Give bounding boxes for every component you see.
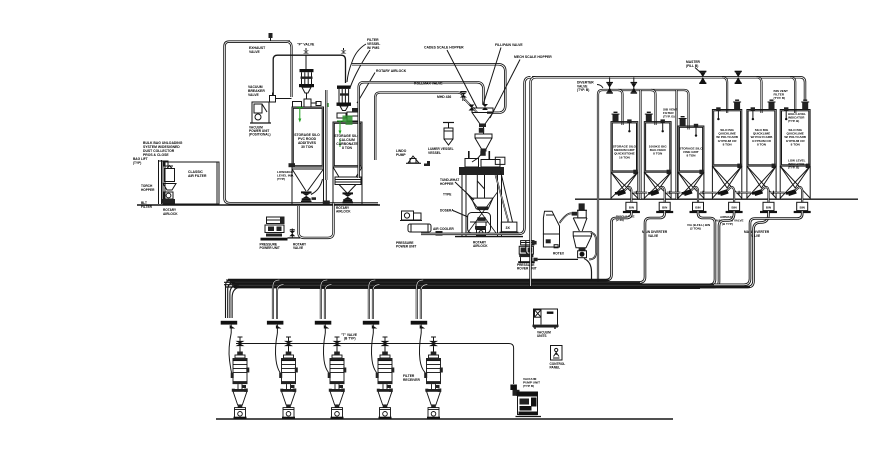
drop fitting 4 (363, 321, 380, 333)
coupling on pressure line (436, 231, 443, 236)
svg-text:BIN: BIN (766, 206, 771, 210)
pipe bin downcomer 5 (400, 211, 769, 287)
label rotary airlock silo2 (376, 69, 407, 73)
green patch feeder (327, 103, 353, 125)
label rotary airlock left (163, 208, 178, 216)
valve between scale hoppers (479, 128, 484, 133)
svg-text:AIRLOCK: AIRLOCK (163, 212, 178, 216)
label cades scale hopper (424, 46, 464, 50)
bin box 5 (760, 202, 777, 213)
svg-text:(TYP. B): (TYP. B) (788, 119, 799, 123)
svg-text:(TYP): (TYP) (277, 177, 285, 181)
svg-text:VALVE: VALVE (248, 93, 260, 97)
svg-text:AIR FILTER: AIR FILTER (188, 174, 207, 178)
svg-text:VESSEL: VESSEL (428, 151, 441, 155)
label pressure power unit blower (260, 243, 280, 251)
svg-text:8 TON: 8 TON (653, 152, 663, 156)
label high level indicator (788, 112, 806, 123)
label pressure rover unit (517, 263, 537, 271)
svg-text:"P" VALVE: "P" VALVE (297, 43, 315, 47)
svg-text:8 TON: 8 TON (757, 142, 767, 146)
valve T on filter line 2 (341, 48, 347, 54)
vacuum units box (533, 309, 559, 329)
discharge valve bin1 (615, 189, 626, 196)
pipe bin downcomer 4 (234, 211, 734, 287)
bin B6 (780, 100, 810, 198)
svg-text:30 TON: 30 TON (301, 145, 313, 149)
valve master fill 1 (699, 71, 706, 84)
label vacuum pump unit (523, 377, 540, 388)
leader filter vessel wavy (347, 44, 370, 88)
label discharge note (616, 215, 635, 223)
green arrow silo1 (297, 108, 304, 123)
doser unit (468, 213, 491, 233)
label dosera (440, 209, 454, 213)
svg-text:BIN: BIN (695, 206, 700, 210)
discharge valve bin4 (718, 189, 729, 196)
valve riser 1 (606, 77, 613, 93)
bin box 1 (623, 202, 640, 213)
svg-text:MECH SCALE HOPPER: MECH SCALE HOPPER (514, 55, 552, 59)
svg-text:(B TYP): (B TYP) (722, 222, 733, 226)
bin B5 (747, 100, 776, 198)
ground line mixer (455, 236, 523, 238)
pipe right group fill drops (722, 77, 795, 113)
pipe silo2 discharge branch (299, 203, 334, 238)
rotary airlock silo2 (343, 192, 354, 203)
pipe pressure line to riser (421, 77, 531, 234)
scale hopper SH1 (472, 108, 493, 127)
control panel box (551, 346, 563, 361)
label bin B1 text (613, 145, 637, 160)
lindo pump symbol (406, 156, 421, 163)
svg-text:8 TON: 8 TON (342, 146, 352, 150)
leader rotary airlock (357, 73, 375, 104)
svg-text:ROTARY AIRLOCK: ROTARY AIRLOCK (376, 69, 407, 73)
bin box 6 (794, 202, 811, 213)
svg-text:CADES SCALE HOPPER: CADES SCALE HOPPER (424, 46, 464, 50)
bin box 2 (656, 202, 673, 213)
svg-text:RECEIVER: RECEIVER (403, 378, 420, 382)
filter F2 on silo2 (337, 86, 352, 111)
hose drop5 to receiver5 (419, 333, 425, 373)
drop fitting 5 (411, 321, 428, 333)
label blt filter (141, 201, 153, 209)
valve on hopper1 top (482, 104, 488, 110)
lumer vessel (443, 122, 454, 145)
bin box 3 (690, 202, 707, 213)
pipe bowl S-curve (589, 233, 596, 260)
valve T on filter line 1 (303, 48, 309, 69)
label rotary valve (293, 243, 307, 251)
discharge elbow bin5 (762, 187, 769, 202)
label silo1 text (294, 133, 320, 149)
label bag lift (133, 157, 148, 165)
svg-text:BIN: BIN (800, 206, 805, 210)
pipe chute to cyclone arc (560, 212, 578, 223)
svg-text:HOPPER: HOPPER (141, 188, 155, 192)
svg-text:(2 TON): (2 TON) (690, 227, 701, 231)
label fill-pain valve (495, 43, 523, 47)
leader dosera (453, 211, 468, 218)
bin box 4 (726, 202, 743, 213)
bulk bag unloader mast (158, 160, 173, 204)
svg-text:FILTER: FILTER (141, 205, 153, 209)
discharge valve bin2 (648, 189, 659, 196)
label master fill (686, 60, 701, 68)
valve master fill 2 (735, 71, 742, 84)
drop fitting 1 (221, 321, 238, 333)
pipe discharge connector 4 (736, 191, 751, 195)
leader diverter valve (597, 85, 603, 89)
valve riser 2 (631, 77, 638, 93)
label filter receiver (403, 374, 420, 382)
filter F1 on silo1 (299, 69, 314, 99)
ground line right section (575, 198, 858, 200)
svg-text:POWER UNIT: POWER UNIT (260, 246, 280, 250)
pipe mid loop y82 (359, 82, 484, 178)
pipe: exhaust riser stub (269, 33, 273, 41)
manifold drop 2 (273, 280, 284, 319)
sifter chute (543, 211, 559, 248)
leader fill-pain valve (483, 48, 501, 106)
pipe: silo1 exhaust riser (286, 42, 292, 97)
discharge elbow bin4 (727, 187, 734, 202)
label filter vessel (367, 38, 380, 50)
pipe rover line (538, 258, 578, 260)
dust collector housing (163, 162, 219, 204)
label tund-what hopper (440, 178, 459, 186)
bin B2 (644, 112, 671, 198)
svg-text:VALVE: VALVE (648, 234, 658, 238)
leader master fill (695, 68, 701, 74)
hose drop4 to receiver4 (371, 333, 376, 373)
valve rotary on line (289, 229, 295, 238)
svg-text:VALVE: VALVE (249, 50, 261, 54)
pipe between silos vertical (325, 90, 327, 180)
pipe main conveying line y77 (532, 77, 805, 100)
rotary airlock silo1 (301, 179, 323, 203)
label bin B6 text (784, 128, 806, 146)
vacuum pump unit (510, 385, 541, 417)
pipe cyclone drop to manifold (584, 259, 592, 282)
svg-text:3X: 3X (506, 226, 511, 230)
discharge elbow bin3 (691, 187, 698, 202)
manifold band (224, 280, 750, 289)
label bulk bag unloading note (143, 141, 183, 157)
svg-text:MHD 436: MHD 436 (437, 95, 451, 99)
label bin B5 text (751, 128, 773, 146)
label bin B4 text (716, 128, 738, 146)
receiver R5 (424, 337, 443, 420)
svg-text:DOSERA: DOSERA (440, 209, 454, 213)
svg-text:POWER UNIT: POWER UNIT (396, 245, 416, 249)
label main diverter valve left (642, 230, 668, 238)
steps symbol (421, 161, 430, 166)
rotary feeder on silo2 top (337, 108, 359, 121)
hose drop2 to receiver2 (275, 333, 280, 373)
label vacuum breaker valve (248, 85, 265, 97)
svg-text:PANEL: PANEL (550, 366, 561, 370)
chute diagonals to 3X (496, 171, 513, 222)
manifold drop 1 (226, 280, 243, 318)
bin B3 (678, 117, 704, 199)
svg-text:HOPPER: HOPPER (440, 182, 454, 186)
air cooler (408, 224, 431, 232)
label torch hopper (141, 184, 155, 192)
pipe bin downcomer 2 (230, 211, 665, 282)
label mhd 436 (437, 95, 451, 99)
label bin B2 text (649, 145, 667, 156)
pipe mid riser to manifold (526, 241, 530, 255)
svg-text:(POSITIONAL): (POSITIONAL) (249, 133, 271, 137)
scale hopper SH2 (472, 127, 492, 162)
pressure power unit left (400, 211, 422, 221)
svg-text:AIR COOLER: AIR COOLER (433, 227, 454, 231)
cyclone receiver (573, 203, 591, 257)
svg-text:BIN: BIN (629, 206, 634, 210)
svg-text:(B TYP): (B TYP) (344, 337, 356, 341)
manifold drop 5 (417, 280, 428, 319)
pipe header downpipe x600 (597, 96, 599, 282)
ground line bottom (216, 418, 673, 420)
vacuum power unit skid (250, 102, 271, 123)
svg-text:TYPE: TYPE (443, 193, 451, 197)
hose drop3 to receiver3 (323, 333, 328, 373)
svg-text:(FILL B): (FILL B) (686, 64, 698, 68)
discharge valve bin6 (786, 189, 797, 196)
rotary airlock left (162, 192, 175, 204)
svg-text:8 TON: 8 TON (686, 154, 696, 158)
pipe to blower (288, 237, 301, 239)
svg-text:(TYP. B): (TYP. B) (774, 96, 786, 100)
storage silo S1 (289, 99, 324, 205)
label rollmax valve (414, 82, 443, 86)
leader mech scale hopper (490, 60, 520, 119)
pipe discharge connector 3 (700, 191, 717, 195)
svg-text:VALVE: VALVE (750, 234, 760, 238)
label air cooler (433, 227, 454, 231)
label rotary airlock silo2 bottom (336, 206, 351, 214)
svg-text:AIRLOCK: AIRLOCK (336, 210, 351, 214)
valve on hopper1 inlet slant (469, 105, 475, 111)
discharge elbow bin1 (625, 187, 632, 202)
mixer platform (459, 151, 505, 237)
manifold drop 3 (321, 280, 332, 319)
svg-text:8 TON: 8 TON (723, 142, 733, 146)
svg-text:8 TON: 8 TON (791, 142, 801, 146)
label bin vent filter right (774, 89, 789, 100)
label vacuum units (537, 331, 551, 339)
discharge valve bin5 (752, 189, 763, 196)
valve below hopper2 (480, 151, 485, 156)
pressure rover unit (518, 241, 537, 264)
pipe outer loop y64 (352, 64, 505, 113)
storage silo S2 (333, 122, 362, 205)
discharge elbow bin6 (795, 187, 802, 202)
vacuum breaker valve symbol (270, 93, 292, 103)
pipe interbin vertical 1 (639, 90, 641, 199)
drop fitting 3 (315, 321, 332, 333)
label vacuum power unit (249, 126, 271, 137)
pipe slant valve to hopper2 (464, 98, 478, 113)
drop fitting 2 (267, 321, 284, 333)
svg-text:VALVE: VALVE (293, 246, 303, 250)
label lumer vessel (428, 147, 454, 155)
svg-text:(TYP. B): (TYP. B) (788, 166, 799, 170)
svg-text:PUMP: PUMP (396, 153, 406, 157)
receiver R3 (328, 337, 347, 420)
svg-text:ROVER UNIT: ROVER UNIT (517, 267, 537, 271)
svg-text:(TYP B): (TYP B) (523, 384, 534, 388)
tund hopper duct and funnel (471, 175, 493, 210)
label rotary airlock doser (473, 241, 488, 249)
pipe inner loop y92 (375, 93, 463, 161)
label type (443, 193, 451, 197)
svg-text:BIN: BIN (662, 206, 667, 210)
pipe: filter feed line y55 (273, 55, 345, 95)
svg-text:(TYP. B): (TYP. B) (577, 88, 589, 92)
leader cades scale hopper (447, 50, 477, 108)
bin B4 (712, 100, 741, 198)
svg-text:(TYP): (TYP) (133, 161, 141, 165)
ground line left section (137, 204, 380, 206)
pipe bin downcomer 1 (228, 211, 631, 280)
rotary airlock doser (477, 230, 486, 236)
receiver R1 (231, 337, 250, 420)
label control panel (550, 362, 566, 370)
receiver R2 (279, 337, 298, 420)
svg-text:(TYP. B): (TYP. B) (663, 115, 675, 119)
pipe discharge connector 2 (667, 191, 681, 195)
discharge valve bin3 (682, 189, 693, 196)
label rotex (553, 252, 565, 256)
box 3X scale (500, 222, 519, 234)
label bin B3 text (679, 147, 703, 158)
svg-text:FILL/PAIN VALVE: FILL/PAIN VALVE (495, 43, 523, 47)
label mech scale hopper (514, 55, 552, 59)
valve mhd (460, 92, 467, 98)
label pressure power unit left (396, 241, 416, 249)
pipe silo2 drop cap (323, 180, 330, 204)
vacuum header line (236, 344, 514, 385)
label t valve (341, 333, 357, 341)
bulk bag (165, 166, 175, 182)
svg-text:UNITS: UNITS (537, 334, 547, 338)
hose drop1 to receiver1 (229, 333, 231, 373)
svg-text:BIN: BIN (732, 206, 737, 210)
pipe: top-left loop horizontal (225, 42, 379, 204)
svg-text:16 TON: 16 TON (619, 155, 631, 159)
label lindo pump (396, 149, 407, 157)
label low level indicator (788, 159, 806, 170)
pipe bin downcomer 3 (232, 211, 715, 285)
svg-text:ROLLMAX VALVE: ROLLMAX VALVE (414, 82, 443, 86)
tee under doser airlock (478, 233, 485, 237)
manifold drop 4 (369, 280, 380, 319)
label via b-fill bin (687, 223, 710, 231)
label sib vent filter (663, 108, 677, 119)
pipe main riser second (531, 77, 537, 286)
label silo1 side note (277, 170, 294, 181)
pipe bin downcomer 6 (400, 211, 802, 285)
svg-text:AIRLOCK: AIRLOCK (473, 244, 488, 248)
label airmake note (716, 215, 744, 226)
pipe discharge connector 1 (633, 191, 647, 195)
svg-text:ROTEX: ROTEX (553, 252, 565, 256)
receiver R4 (376, 337, 395, 420)
pipe branch header left bins (598, 90, 689, 130)
label tip valve (297, 43, 315, 47)
label silo2 text (334, 134, 360, 150)
leader tund hopper (455, 182, 474, 200)
blower unit (261, 217, 288, 241)
green arrow silo2 (337, 121, 344, 147)
svg-text:W/ PMS: W/ PMS (367, 46, 380, 50)
label main diverter valve right (744, 230, 770, 238)
torch hopper (163, 184, 176, 191)
label exhaust valve (249, 46, 266, 54)
bin B1 (611, 112, 638, 198)
label diverter valve typ (577, 81, 594, 93)
discharge elbow bin2 (658, 187, 665, 202)
pipe discharge connector 5 (771, 191, 785, 195)
support X brace mixer (466, 192, 498, 235)
pipe interbin vertical 2 (675, 90, 677, 199)
label classic air filter (188, 170, 207, 178)
